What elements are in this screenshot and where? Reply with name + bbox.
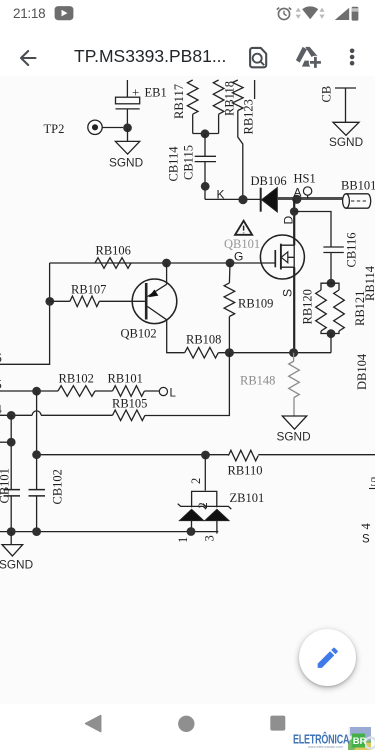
svg-text:D: D bbox=[282, 216, 296, 225]
wire QB102 collector down bbox=[167, 320, 185, 353]
node source junction bbox=[289, 348, 298, 357]
svg-text:RB101: RB101 bbox=[108, 372, 143, 386]
wire thick drain drop bbox=[293, 199, 295, 245]
svg-text:CB115: CB115 bbox=[182, 145, 196, 180]
node row4 left column bbox=[7, 411, 16, 420]
svg-text:QB101: QB101 bbox=[224, 237, 260, 251]
capacitor CB101 bbox=[4, 490, 21, 496]
node bus x11 bbox=[7, 527, 16, 536]
wire TP2 to node bbox=[102, 127, 123, 129]
wire CB115 bottom bbox=[204, 162, 206, 200]
resistor RB110 bbox=[228, 450, 258, 461]
wire CB116 to node bbox=[330, 253, 332, 284]
node below CB115 bbox=[201, 182, 210, 191]
wire bottom bracket bbox=[321, 331, 339, 334]
node RB117/RB118 junction bbox=[201, 129, 210, 138]
capacitor CB116 bbox=[323, 247, 343, 253]
capacitor CB114/CB115 bbox=[195, 156, 216, 161]
wire stub row bbox=[0, 441, 11, 443]
svg-text:BR: BR bbox=[353, 736, 367, 747]
resistor RB108 bbox=[185, 347, 219, 358]
wire RB148 leads bbox=[293, 353, 295, 416]
svg-text:RB110: RB110 bbox=[228, 464, 263, 478]
warning triangle bbox=[235, 221, 252, 235]
wire node to ground bbox=[127, 128, 129, 141]
svg-text:QB102: QB102 bbox=[121, 327, 157, 341]
signal triangle bbox=[335, 8, 349, 20]
svg-text:CB114: CB114 bbox=[167, 146, 181, 182]
alarm clock status icon bbox=[277, 8, 291, 20]
diode DB106 bbox=[261, 188, 278, 213]
svg-text:www.eletronicabr.com: www.eletronicabr.com bbox=[308, 745, 343, 749]
node RB109 bottom bbox=[225, 348, 234, 357]
wire RB109 leads bbox=[228, 263, 231, 353]
test point TP2 bbox=[88, 120, 102, 134]
svg-text:ZB101: ZB101 bbox=[230, 491, 265, 505]
node D branch bbox=[290, 207, 299, 216]
svg-text:RB108: RB108 bbox=[186, 333, 221, 347]
node main row left bbox=[32, 450, 41, 459]
svg-text:A: A bbox=[294, 186, 302, 200]
svg-text:SGND: SGND bbox=[109, 156, 143, 170]
wire node down to source row bbox=[330, 334, 332, 353]
svg-text:RB121: RB121 bbox=[353, 291, 367, 326]
wire source row bbox=[218, 352, 331, 354]
svg-text:DB106: DB106 bbox=[251, 174, 287, 188]
capacitor CB102 bbox=[29, 490, 46, 496]
svg-text:4: 4 bbox=[359, 523, 373, 530]
svg-text:CB102: CB102 bbox=[51, 469, 65, 504]
ground SGND under EB1 bbox=[115, 141, 139, 154]
overflow menu dots bbox=[350, 49, 355, 66]
svg-text:TP2: TP2 bbox=[44, 122, 65, 136]
svg-text:CB116: CB116 bbox=[345, 233, 359, 268]
wire bottom bus bbox=[0, 531, 218, 533]
svg-text:1: 1 bbox=[176, 537, 190, 543]
svg-text:BB101: BB101 bbox=[341, 179, 375, 193]
node QB102 emitter top bbox=[162, 259, 171, 268]
transistor QB102 bbox=[132, 279, 177, 324]
svg-text:5: 5 bbox=[0, 378, 2, 392]
svg-text:HS1: HS1 bbox=[294, 172, 316, 186]
heatsink pad HS1 bbox=[303, 187, 311, 195]
wire RB123 to node K bbox=[238, 111, 243, 200]
nav back triangle bbox=[86, 716, 101, 732]
wire thick source bbox=[293, 267, 295, 353]
svg-text:EB1: EB1 bbox=[145, 86, 167, 100]
resistor RB107 bbox=[70, 296, 99, 307]
svg-text:RB118: RB118 bbox=[223, 81, 237, 116]
hop row4 over column bbox=[32, 411, 41, 415]
wire RB117/RB118 tie bbox=[193, 133, 219, 135]
add to drive icon bbox=[296, 47, 322, 69]
svg-text:RB106: RB106 bbox=[96, 244, 131, 258]
svg-text:RB117: RB117 bbox=[172, 84, 186, 119]
wire cut-off top stub bbox=[254, 80, 256, 99]
svg-text:CB: CB bbox=[320, 86, 334, 103]
node bus x36 bbox=[32, 527, 41, 536]
wire node to CB114/CB115 bbox=[204, 134, 206, 156]
svg-text:RB123: RB123 bbox=[242, 99, 256, 134]
network arrows right bbox=[319, 8, 324, 19]
wire main row y455 bbox=[37, 454, 375, 456]
svg-text:2: 2 bbox=[189, 478, 203, 484]
ground SGND bottom left bbox=[2, 532, 23, 556]
wire RB109 drop to row4 bbox=[145, 353, 229, 416]
suppressor ZB101 bbox=[178, 491, 232, 533]
node bus ZB101 pin1 bbox=[187, 527, 196, 536]
capacitor CB top right bbox=[335, 87, 356, 89]
resistor RB102 bbox=[58, 386, 95, 397]
svg-text:2: 2 bbox=[196, 502, 210, 508]
resistor RB148 bbox=[289, 361, 300, 398]
svg-text:S: S bbox=[362, 534, 370, 546]
resistor RB121 bbox=[334, 290, 345, 331]
svg-text:RB102: RB102 bbox=[59, 372, 94, 386]
wire row4 left bbox=[0, 414, 113, 416]
network arrows left bbox=[296, 8, 301, 19]
wire RB117 bottom bbox=[192, 114, 194, 133]
resistor RB117 bbox=[187, 80, 198, 114]
svg-text:K: K bbox=[217, 188, 225, 202]
svg-text:RB105: RB105 bbox=[112, 397, 147, 411]
youtube status icon bbox=[55, 6, 74, 20]
wire ZB101 pin2 bbox=[204, 455, 206, 491]
svg-text:DB104: DB104 bbox=[355, 353, 369, 390]
wire gate row bbox=[50, 262, 276, 264]
battery bbox=[352, 7, 359, 21]
node stub bbox=[7, 438, 16, 447]
wire column x36 bbox=[36, 391, 38, 531]
wire RB107 leads bbox=[50, 300, 145, 302]
mosfet QB101 bbox=[260, 235, 304, 279]
svg-text:4: 4 bbox=[0, 403, 3, 417]
node RB120/RB121 bottom bbox=[327, 329, 336, 338]
resistor RB105 bbox=[113, 410, 146, 421]
svg-text:CB101: CB101 bbox=[0, 468, 12, 503]
wire CB to ground bbox=[345, 88, 347, 122]
wire left rail bbox=[0, 263, 50, 364]
wire thick anode bus bbox=[277, 197, 343, 200]
ferrite bead BB101 bbox=[343, 194, 371, 208]
back arrow bbox=[21, 51, 36, 65]
svg-text:RB148: RB148 bbox=[240, 374, 275, 388]
svg-text:L: L bbox=[170, 388, 177, 400]
node RB120/RB121 top bbox=[327, 279, 336, 288]
node gate/RB109 bbox=[226, 259, 235, 268]
node RB107 tap bbox=[45, 297, 54, 306]
wifi icon bbox=[302, 6, 318, 19]
svg-text:RB120: RB120 bbox=[301, 289, 315, 324]
svg-text:RB109: RB109 bbox=[238, 297, 273, 311]
svg-text:S: S bbox=[281, 289, 295, 297]
resistor RB106 bbox=[95, 258, 131, 269]
resistor RB118 bbox=[213, 80, 224, 114]
svg-text:G: G bbox=[234, 250, 243, 264]
ground SGND under RB148 bbox=[282, 416, 306, 429]
resistor RB123 bbox=[233, 80, 244, 111]
svg-text:5: 5 bbox=[371, 475, 375, 489]
node row5 bbox=[32, 387, 41, 396]
wire RB118 bottom bbox=[218, 114, 220, 133]
wire D node to CB116 bbox=[294, 212, 331, 247]
wire cathode row bbox=[205, 198, 260, 200]
find in page icon bbox=[250, 48, 266, 67]
nav home circle bbox=[178, 716, 194, 732]
pencil edit icon bbox=[318, 648, 338, 668]
wire column x11 bbox=[10, 415, 12, 531]
svg-text:SGND: SGND bbox=[329, 135, 363, 149]
svg-text:SGND: SGND bbox=[0, 558, 33, 572]
node K bbox=[238, 195, 247, 204]
svg-text:6: 6 bbox=[0, 351, 2, 365]
svg-text:RB107: RB107 bbox=[71, 283, 106, 297]
resistor RB120 bbox=[316, 290, 327, 331]
resistor RB101 bbox=[113, 386, 145, 397]
svg-text:3: 3 bbox=[203, 535, 217, 541]
capacitor EB1 bbox=[116, 80, 140, 124]
svg-text:+: + bbox=[132, 85, 139, 100]
terminal L bbox=[159, 387, 167, 395]
nav recents square bbox=[270, 716, 285, 731]
wire top bracket bbox=[321, 283, 339, 290]
resistor RB109 bbox=[224, 283, 235, 317]
node HS1 on bus bbox=[292, 195, 301, 204]
wire QB102 emitter up bbox=[166, 263, 168, 284]
node main row ZB tap bbox=[201, 451, 210, 460]
node EB1/TP2 junction bbox=[123, 123, 132, 132]
ground SGND top right bbox=[333, 122, 359, 135]
wire row5 L net bbox=[0, 390, 159, 392]
svg-text:SGND: SGND bbox=[277, 430, 311, 444]
